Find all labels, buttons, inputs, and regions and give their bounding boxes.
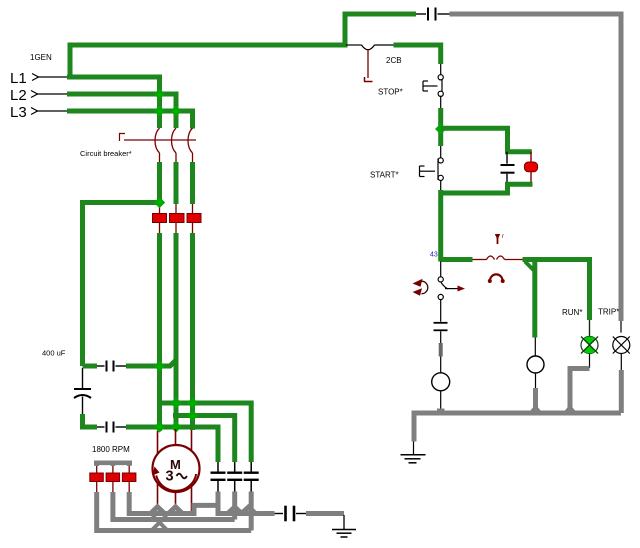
run line hop CS2 (228, 507, 242, 514)
wire run cap to ground (306, 511, 344, 516)
svg-text:STOP*: STOP* (378, 88, 403, 97)
circuit breaker handle (120, 134, 126, 142)
motor wire 2 (175, 429, 177, 507)
rotation linkage symbol (422, 281, 428, 294)
wire row3 phase B to start cap CS2 (173, 416, 235, 463)
motor wire 1 (157, 431, 159, 507)
wire CS1 to run capacitor (218, 492, 275, 514)
junction A-L3 crossover (154, 105, 165, 116)
overload heater B (170, 214, 185, 223)
ground (motor side) (332, 529, 356, 531)
wire phase C breaker to heater (192, 153, 194, 162)
fuse F2 (112, 466, 114, 473)
gray bus fuse1 to CS3 (97, 492, 252, 531)
wire CS2 down (232, 492, 237, 520)
wire phase B from L2 (67, 94, 176, 128)
aux contact M seal (440, 262, 442, 277)
gray right rail (450, 14, 622, 321)
bus crossover X (153, 516, 167, 530)
circuit breaker 1CB pole A (155, 128, 160, 153)
wire top feed green L1 to control (70, 14, 416, 77)
svg-text:TRIP*: TRIP* (598, 308, 619, 317)
capacitor C3 400uF (97, 426, 105, 428)
overload heater C (187, 214, 201, 223)
svg-text:1800 RPM: 1800 RPM (92, 445, 130, 454)
junction row4 phase A (154, 421, 165, 432)
junction branch at phase A (154, 197, 165, 208)
gray bottom bus (414, 413, 621, 442)
overload heater A (153, 214, 167, 223)
junction lamp2 bus (530, 407, 542, 415)
wire L1 input (37, 76, 67, 78)
wire CS3 down (249, 492, 254, 531)
capacitor C2 400uF polarized (82, 368, 84, 388)
fuse F1 (96, 466, 98, 473)
wire phase C from L3 (67, 111, 193, 129)
wire phase B heater to motor (175, 223, 177, 234)
svg-text:1GEN: 1GEN (30, 53, 52, 62)
wire 400uF branch (83, 203, 160, 367)
capacitor C4 top (416, 13, 426, 15)
junction coil branch (435, 123, 446, 134)
start capacitor CS1 (217, 462, 219, 472)
switch 2CB (346, 44, 362, 46)
svg-text:Circuit breaker*: Circuit breaker* (80, 149, 132, 158)
wire phase A from L1 (67, 77, 160, 128)
svg-text:START*: START* (370, 171, 399, 180)
gray bus fuse3 to CS1 (129, 492, 218, 514)
svg-text:43: 43 (430, 252, 438, 259)
overload trip indicator (495, 234, 500, 240)
lamp RUN (green) (589, 320, 591, 337)
wire below C2 (80, 414, 85, 430)
bus1 hop motor wire1 (151, 507, 165, 514)
fuse top bus (94, 460, 132, 465)
gray segment (439, 343, 443, 357)
ground (control side) (401, 454, 426, 456)
svg-text:L2: L2 (10, 87, 27, 104)
wire RUN lamp to bus (570, 369, 590, 412)
wire phase C heater to motor (192, 223, 194, 234)
fuse F3 (128, 466, 130, 473)
wire phase B breaker to heater (175, 153, 177, 162)
wire C1 to phase B (126, 360, 176, 366)
wire phase A heater to motor (159, 223, 161, 234)
junction RUN bus (564, 407, 576, 415)
wire C3 row to start cap CS1 (126, 427, 218, 462)
svg-text:r: r (502, 234, 504, 240)
coil linkage symbol (490, 274, 503, 281)
junction row2 phase B (170, 397, 181, 408)
capacitor C1 400uF (83, 364, 98, 369)
motor M1 (153, 445, 200, 492)
circuit breaker 1CB pole C (188, 128, 193, 153)
circuit breaker tie bar (124, 139, 196, 141)
svg-text:400 uF: 400 uF (42, 349, 66, 358)
gray bus fuse2 to CS2 (113, 492, 235, 520)
wire row2 phase A to start cap CS3 (160, 403, 252, 462)
pushbutton START (440, 146, 442, 158)
wire to control ground (413, 442, 415, 455)
junction lamp2 branch (525, 262, 534, 271)
overload contact OL (487, 256, 495, 260)
wire 2CB to STOP (394, 45, 441, 64)
svg-text:RUN*: RUN* (562, 308, 582, 317)
pushbutton STOP (440, 64, 442, 75)
wire phase A breaker to heater (159, 153, 161, 162)
wire L2 input (36, 93, 67, 95)
wire STOP to START (440, 96, 442, 108)
svg-text:3: 3 (166, 469, 174, 485)
run line hop CS3 (242, 507, 256, 514)
junction A-L2 crossover (154, 88, 165, 99)
wire lamp2 branch (534, 338, 536, 357)
junction C1 wire over phase A (154, 360, 165, 371)
wire coil block return (441, 184, 533, 193)
motor rotation arrow (156, 474, 196, 491)
seal capacitor of coil block (506, 152, 508, 164)
bus1 hop motor wire2 (169, 507, 183, 514)
motor wire 3 (191, 430, 193, 511)
svg-text:L3: L3 (10, 104, 27, 121)
junction row2 phase C (187, 397, 198, 408)
start capacitor CS2 (234, 462, 236, 472)
svg-text:2CB: 2CB (386, 56, 402, 65)
junction row3 phase C (187, 410, 198, 421)
capacitor below aux contact (440, 300, 442, 322)
wire rail START to row 43 (438, 190, 443, 262)
lamp TRIP (620, 321, 622, 333)
lamp L1 (left) (432, 373, 450, 391)
wire row to lamps (523, 260, 590, 321)
circuit breaker 1CB pole B (172, 128, 177, 153)
coil M (red) (530, 152, 532, 162)
run capacitor CR (275, 513, 284, 515)
wire L3 input (36, 110, 67, 112)
junction row4 phase B (170, 421, 181, 432)
lamp L2 (middle) (527, 356, 544, 373)
start capacitor CS3 (250, 462, 252, 472)
svg-text:L1: L1 (10, 70, 27, 87)
wire to coil block (441, 128, 532, 151)
wire row 43 (441, 257, 473, 262)
junction B-L3 crossover (170, 105, 181, 116)
